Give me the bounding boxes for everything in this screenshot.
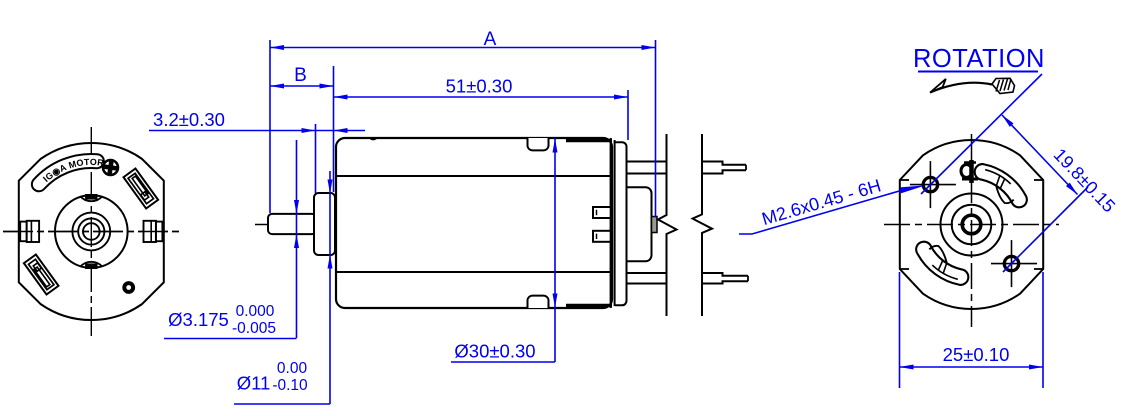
dimension 51 line xyxy=(334,96,629,98)
rear bearing plate circle xyxy=(941,194,1003,256)
svg-text:-0.005: -0.005 xyxy=(232,320,276,337)
dimension dia11 line xyxy=(329,171,331,404)
dimension 19.8 extension lines xyxy=(921,74,1042,194)
svg-text:3.2±0.30: 3.2±0.30 xyxy=(153,109,225,130)
front rivet ring xyxy=(122,281,135,294)
front vent slot upper-right xyxy=(123,169,158,209)
dimension dia30 line xyxy=(554,138,556,362)
dimension A extension lines xyxy=(269,40,271,213)
can crimp band top xyxy=(566,139,612,142)
break line 1 xyxy=(658,134,677,316)
front bearing plate circle xyxy=(55,195,128,268)
rear chamfer ticks xyxy=(900,179,909,181)
front flange boss xyxy=(314,193,335,255)
front phillips screw xyxy=(103,160,118,175)
dimension 25 line xyxy=(900,366,1044,368)
front vent slot lower-left xyxy=(24,255,59,295)
leader M2.6 line xyxy=(739,191,901,235)
rear crimp tab xyxy=(969,160,974,183)
svg-text:Ø3.175: Ø3.175 xyxy=(168,309,229,330)
rotation arrow xyxy=(930,79,946,93)
rear view horizontal centerline xyxy=(884,224,1059,226)
front plate top notch tick xyxy=(80,197,102,201)
dimension dia3.175 label xyxy=(164,338,297,340)
dimension dia11 label xyxy=(234,403,330,405)
rear view outline xyxy=(900,140,1043,309)
svg-text:0.00: 0.00 xyxy=(277,360,308,377)
dimension 51 extension line xyxy=(627,90,629,140)
svg-text:A: A xyxy=(484,29,497,50)
front logo capsule IGOA MOTOR xyxy=(32,154,104,191)
can flat tangent top xyxy=(336,175,611,177)
brush terminal upper (side) xyxy=(593,207,611,218)
terminal lower right + pin xyxy=(702,273,748,284)
can bottom notch xyxy=(528,296,549,308)
svg-text:Ø11: Ø11 xyxy=(237,373,271,394)
endcap outline xyxy=(615,142,627,305)
svg-text:25±0.10: 25±0.10 xyxy=(943,344,1010,365)
can flat tangent bottom xyxy=(336,271,611,273)
rear shaft ring xyxy=(962,215,981,234)
dimension dia3.175 line xyxy=(296,140,298,338)
svg-text:ROTATION: ROTATION xyxy=(913,45,1045,73)
mounting hole upper-left xyxy=(923,177,937,191)
dimension 19.8 line xyxy=(1002,115,1078,195)
dimension A line xyxy=(270,47,656,49)
front view motor end-bell outline xyxy=(19,143,164,320)
dimension 25 extension lines xyxy=(899,272,901,388)
svg-text:-0.10: -0.10 xyxy=(272,377,308,394)
rear shaft tip xyxy=(652,217,658,233)
dimension B line xyxy=(270,85,334,87)
endcap bearing boss xyxy=(627,187,652,261)
side view centerline xyxy=(255,224,450,226)
front plate bottom notch tick xyxy=(80,262,102,266)
front bearing boss circle xyxy=(72,213,110,251)
can crimp band bottom xyxy=(566,304,612,307)
front tab centerline overpass xyxy=(3,231,180,233)
rear kidney vent upper-right xyxy=(975,164,1027,207)
svg-text:Ø30±0.30: Ø30±0.30 xyxy=(454,341,535,362)
svg-text:0.000: 0.000 xyxy=(236,303,275,320)
front shaft circle xyxy=(83,223,100,240)
dimension 3.2 line xyxy=(149,130,365,132)
svg-text:B: B xyxy=(294,65,307,86)
svg-text:51±0.30: 51±0.30 xyxy=(446,76,513,97)
front left tab xyxy=(20,222,27,242)
rear view vertical centerline xyxy=(971,134,973,327)
terminal lead upper left segment xyxy=(627,161,667,163)
dimension B extension line xyxy=(333,66,335,192)
shaft xyxy=(268,214,316,234)
motor can body xyxy=(336,138,612,308)
dimension dia30 label xyxy=(451,361,555,363)
can right edge xyxy=(610,138,612,308)
terminal upper right + pin xyxy=(702,162,746,174)
dimension 3.2 extension line xyxy=(315,124,317,193)
front view horizontal centerline xyxy=(3,231,180,233)
can top notch xyxy=(528,138,549,150)
rear bearing circle xyxy=(952,205,992,245)
front bearing circle xyxy=(78,218,104,244)
terminal lead lower left segment xyxy=(627,272,667,274)
front right tab xyxy=(144,221,163,242)
rear kidney vent lower-left xyxy=(916,242,968,285)
break line 2 xyxy=(693,134,712,316)
brush terminal lower (side) xyxy=(593,231,611,242)
front view vertical centerline xyxy=(90,127,92,336)
can weld bump xyxy=(370,138,377,140)
mounting hole lower-right xyxy=(1004,256,1018,270)
